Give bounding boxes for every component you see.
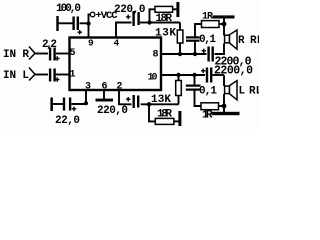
polarity mark C10 — [55, 77, 60, 82]
ground bar G3 — [213, 15, 235, 18]
svg-text:IN L: IN L — [3, 70, 29, 82]
ground bar G7 — [212, 112, 240, 115]
ground bar G6 — [178, 111, 181, 126]
svg-text:18R: 18R — [156, 13, 173, 25]
op-amp IC U1 — [70, 38, 162, 91]
svg-text:L: L — [239, 86, 246, 98]
svg-text:100,0: 100,0 — [56, 3, 81, 15]
svg-text:22,0: 22,0 — [55, 115, 80, 127]
node C junction — [147, 102, 151, 106]
wire speaker to node B2 — [223, 94, 225, 106]
ground bar G5 — [50, 98, 53, 112]
svg-text:4: 4 — [114, 38, 120, 49]
svg-text:IN R: IN R — [3, 49, 29, 61]
ground bar G2 — [176, 2, 179, 17]
capacitor C8 22,0 — [69, 98, 71, 111]
connector IN L — [29, 68, 35, 81]
polarity mark C9 — [55, 56, 60, 61]
wire VCC stub — [89, 15, 91, 24]
svg-text:6: 6 — [102, 82, 108, 93]
node pin10-13K junction — [176, 73, 180, 77]
svg-text:9: 9 — [88, 38, 94, 49]
terminal +VCC circle — [90, 12, 95, 17]
svg-text:R: R — [238, 35, 245, 47]
ground bar G4 — [96, 99, 114, 102]
wire node A — [150, 22, 181, 24]
capacitor C3 0,1 top — [194, 42, 196, 55]
resistor R2 13K top — [179, 23, 181, 31]
wire 18R bottom stub — [149, 104, 155, 121]
resistor R6 18R bottom — [155, 118, 174, 124]
wire node C — [141, 103, 179, 105]
resistor R5 1R bottom — [201, 103, 219, 110]
svg-text:1R: 1R — [202, 110, 213, 122]
svg-text:220,0: 220,0 — [97, 105, 128, 117]
svg-text:2: 2 — [117, 82, 123, 93]
node pin10-C6 junction — [192, 73, 196, 77]
capacitor C7 220,0 bottom — [126, 97, 131, 102]
svg-text:5: 5 — [70, 48, 76, 59]
wire pin 3 stub — [72, 91, 87, 105]
capacitor C4 2200,0 top — [202, 49, 207, 54]
node VCC junction — [86, 21, 90, 25]
resistor R4 13K bottom — [178, 75, 180, 81]
wire pin 2 stub — [119, 91, 132, 105]
capacitor C5 2200,0 bottom — [201, 69, 206, 74]
wire to ground top — [223, 19, 225, 25]
svg-text:18R: 18R — [157, 109, 172, 121]
svg-text:8: 8 — [153, 50, 159, 61]
speaker LS2 L — [225, 86, 230, 94]
svg-text:RL: RL — [249, 86, 259, 98]
connector IN R — [29, 47, 35, 60]
wire pin 9 stub — [88, 24, 90, 38]
svg-text:2,2: 2,2 — [42, 39, 57, 51]
wire VCC to C1 — [80, 22, 89, 24]
svg-text:0,1: 0,1 — [199, 86, 217, 98]
wire speaker to C4 — [215, 44, 225, 55]
svg-text:3: 3 — [85, 82, 91, 93]
node pin8-13K junction — [178, 52, 182, 56]
wire to speaker L — [223, 75, 225, 86]
svg-text:RL: RL — [250, 35, 259, 47]
node pin3 corner dot — [84, 101, 88, 105]
node A junction — [147, 20, 151, 24]
wire pin 10 output — [161, 74, 205, 76]
node pin8-C3 junction — [193, 52, 197, 56]
capacitor C10 2,2 lower — [49, 69, 51, 82]
wire 18R top stub — [150, 9, 156, 22]
svg-text:1R: 1R — [202, 12, 213, 23]
svg-text:13K: 13K — [151, 94, 171, 106]
wire pin 6 stub — [103, 91, 105, 100]
node B junction — [222, 22, 227, 27]
resistor R3 1R top — [202, 21, 220, 28]
wire node B to speaker — [223, 24, 225, 36]
wire to ground bottom — [223, 106, 225, 112]
capacitor C1 100,0 — [77, 17, 79, 31]
svg-text:0,1: 0,1 — [199, 34, 216, 46]
wire pin 8 output — [161, 53, 207, 55]
svg-text:1: 1 — [70, 70, 76, 81]
polarity mark C8 — [72, 107, 77, 112]
capacitor C9 2,2 — [49, 48, 51, 61]
node B2 junction — [222, 104, 227, 109]
wire pin 4 stub — [116, 23, 132, 38]
svg-text:2200,0: 2200,0 — [214, 65, 253, 78]
svg-text:10: 10 — [148, 73, 158, 84]
speaker LS1 R — [225, 35, 230, 43]
resistor R1 18R top — [155, 6, 173, 12]
ground bar G1 — [56, 16, 58, 31]
capacitor C2 220,0 top — [126, 15, 131, 20]
svg-text:13K: 13K — [155, 28, 176, 40]
svg-text:220,0: 220,0 — [114, 4, 146, 16]
capacitor C6 0,1 bottom — [194, 75, 196, 85]
